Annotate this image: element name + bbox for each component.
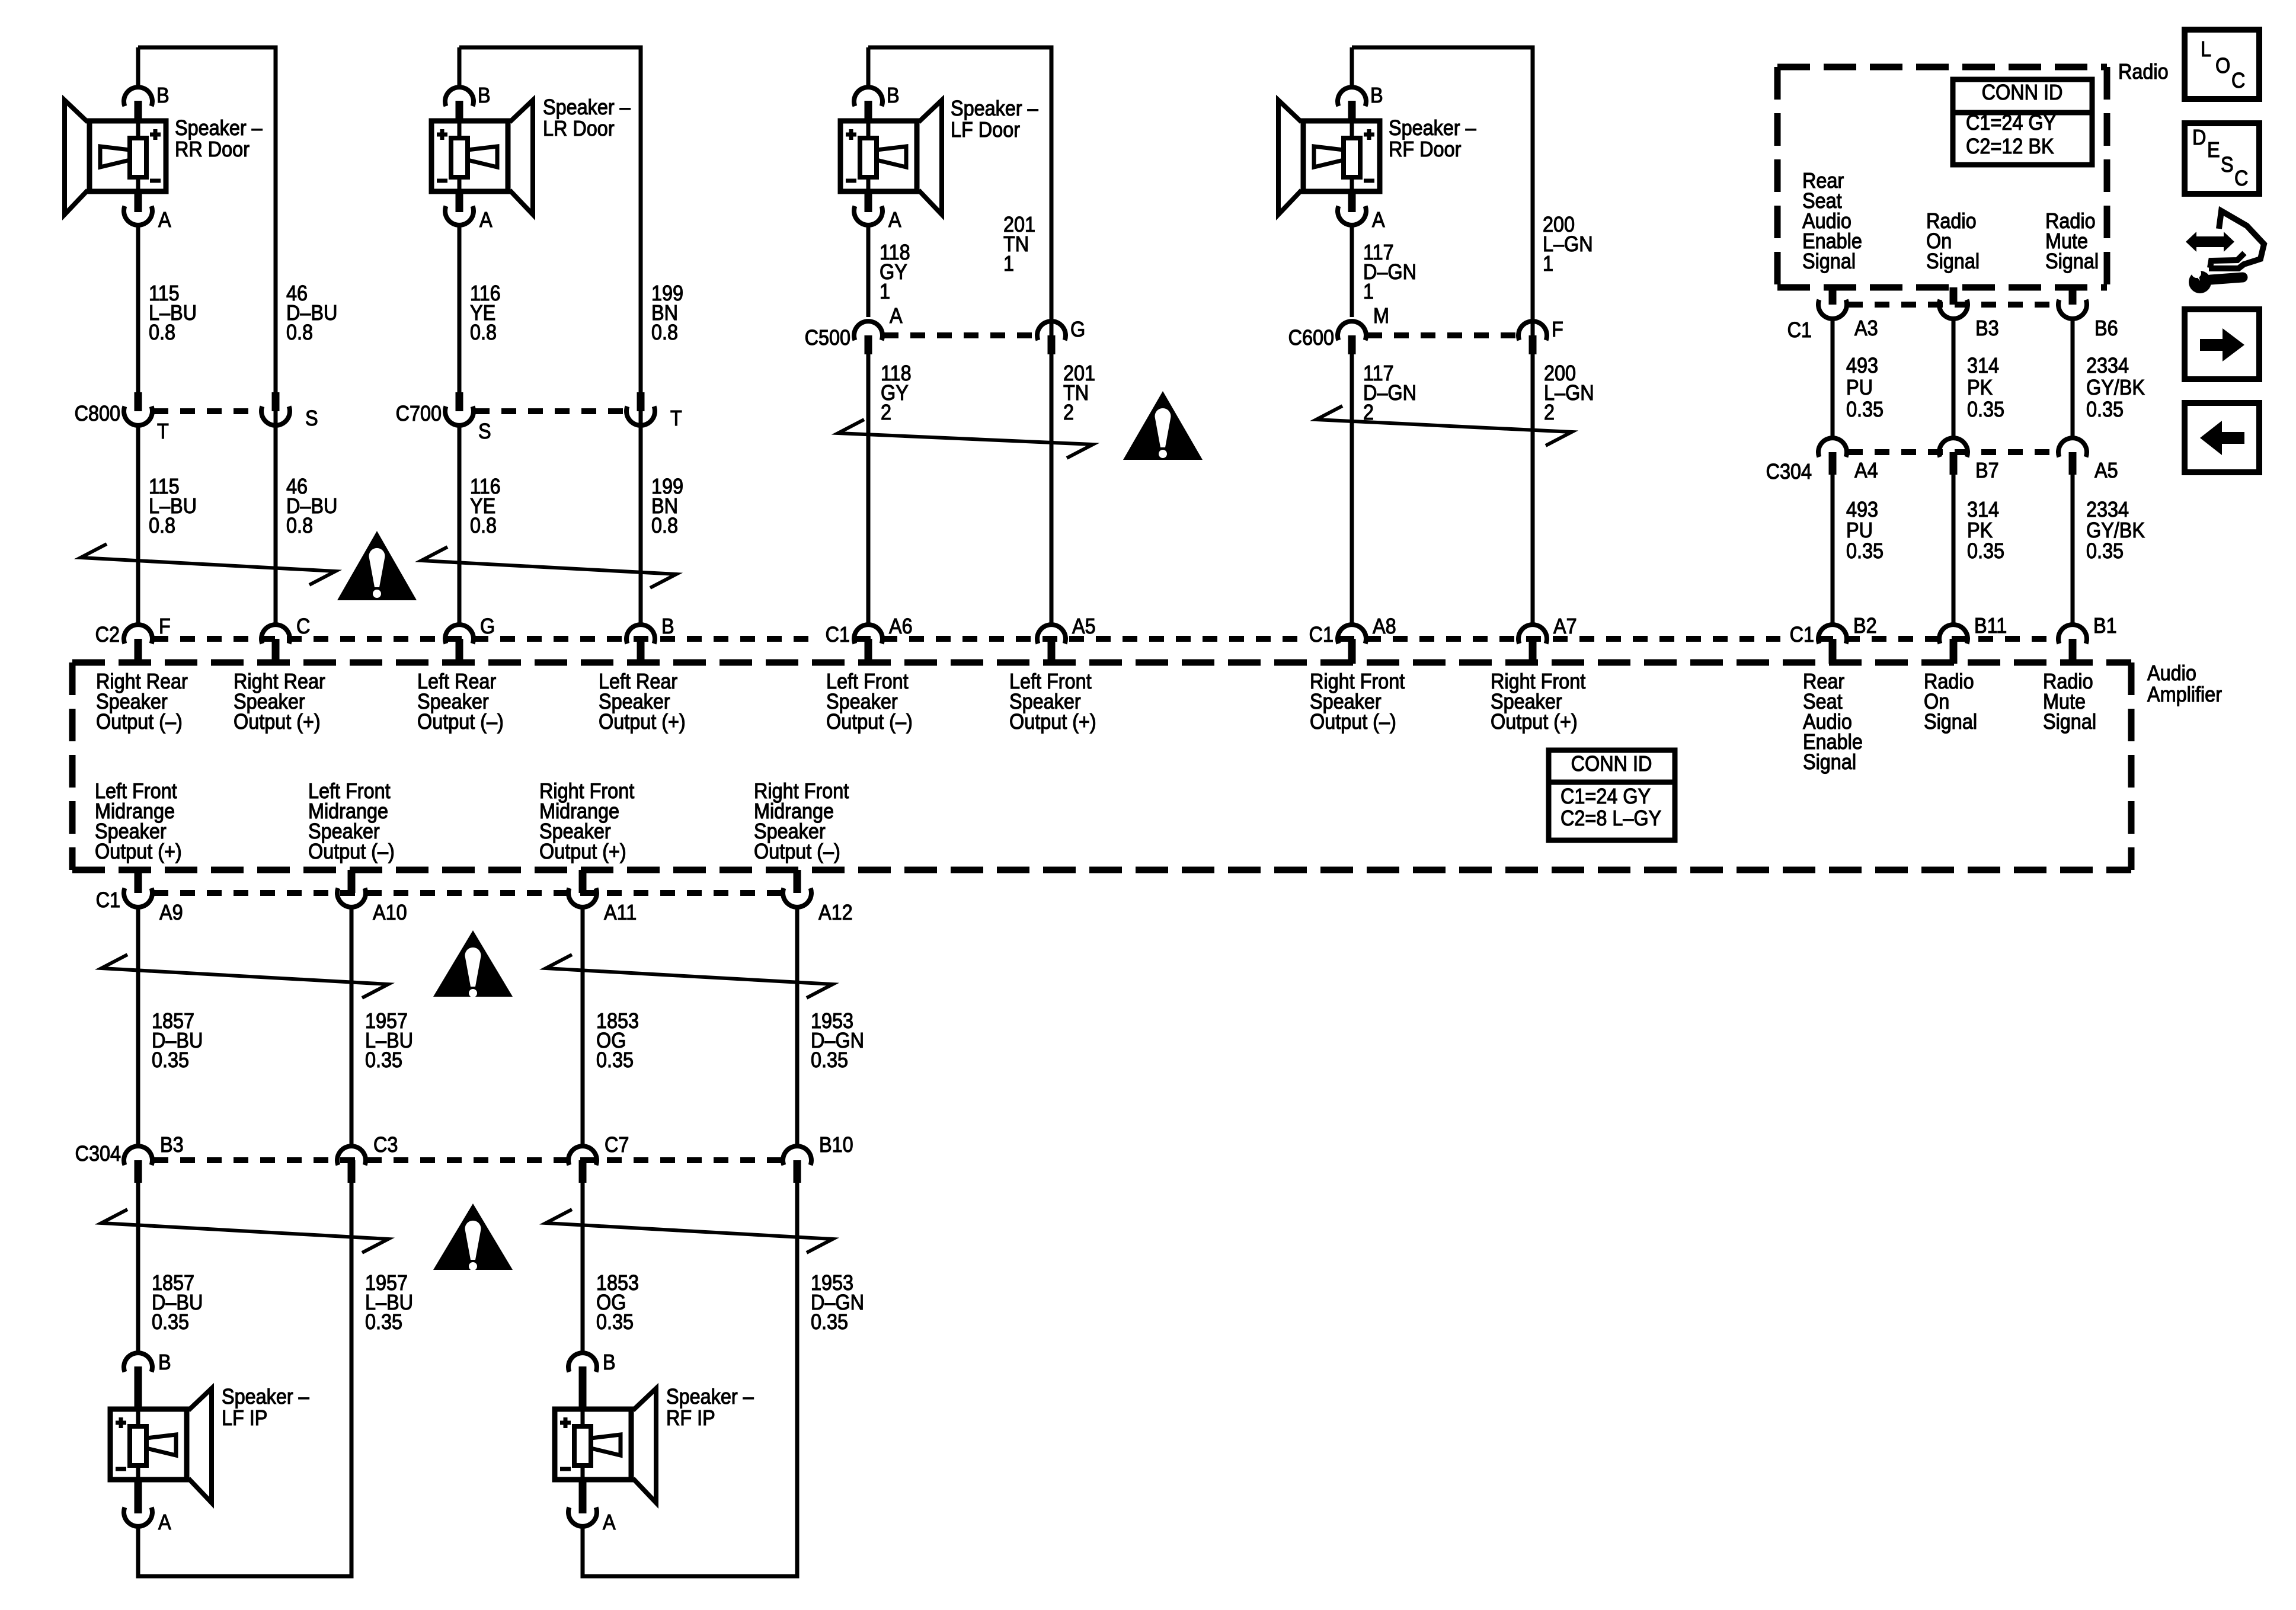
svg-text:A: A [603, 1510, 616, 1534]
svg-text:0.35: 0.35 [152, 1310, 189, 1334]
svg-text:B1: B1 [2093, 614, 2117, 638]
amp pin B [626, 625, 655, 644]
legend service icon wrench [2189, 271, 2211, 293]
svg-text:0.35: 0.35 [596, 1310, 634, 1334]
radio CONN ID table [1953, 79, 2092, 165]
amp top pin row dashed line [154, 636, 817, 642]
speaker internal wire [866, 121, 871, 191]
amp pin F [124, 625, 152, 644]
wire LF IP pin A down [136, 1526, 140, 1579]
amp pin A8 [1338, 625, 1366, 644]
svg-text:C1: C1 [96, 888, 120, 912]
speaker internal wire [458, 121, 462, 191]
svg-text:CONN ID: CONN ID [1571, 752, 1652, 776]
svg-text:1: 1 [1363, 280, 1374, 303]
speaker magnet wedge [468, 146, 497, 167]
svg-text:A: A [890, 304, 903, 328]
svg-text:0.8: 0.8 [286, 514, 313, 537]
svg-text:C304: C304 [75, 1142, 121, 1166]
wire 1853 to RF IP speaker [581, 1183, 585, 1353]
svg-text:B6: B6 [2094, 316, 2118, 340]
connector C500 left pin [854, 321, 882, 340]
svg-text:0.35: 0.35 [811, 1048, 848, 1072]
speaker horn [188, 1388, 212, 1503]
connector C700 right pin [637, 392, 645, 411]
legend DESC box [2185, 123, 2259, 194]
svg-text:0.8: 0.8 [470, 321, 497, 344]
svg-text:Output (–): Output (–) [417, 710, 504, 734]
svg-text:Speaker –: Speaker – [666, 1385, 754, 1409]
amp pin G [445, 625, 474, 644]
svg-text:B3: B3 [160, 1133, 184, 1157]
wire RF Door pin A down [1350, 225, 1354, 317]
wire 1957 upper segment [350, 907, 354, 1146]
wire RR Door below connector left [136, 425, 140, 625]
legend LOC box [2185, 30, 2259, 99]
svg-text:Output (+): Output (+) [95, 840, 182, 863]
radio pin B3 [1950, 287, 1958, 305]
wire radio 2334 lower [2071, 475, 2075, 625]
connector C600 left pin [1338, 321, 1366, 340]
svg-text:B: B [1370, 84, 1383, 107]
svg-text:0.35: 0.35 [1846, 398, 1884, 421]
svg-text:Signal: Signal [2043, 710, 2096, 734]
speaker body box [110, 1409, 187, 1480]
svg-text:Signal: Signal [1803, 750, 1856, 774]
twisted pair symbol LR Door [421, 547, 676, 588]
speaker body box [89, 121, 166, 191]
svg-text:B: B [158, 1350, 171, 1374]
speaker RF Door pin B [1338, 87, 1366, 106]
svg-text:T: T [157, 420, 169, 443]
svg-text:0.8: 0.8 [651, 514, 678, 537]
svg-text:B7: B7 [1975, 459, 1999, 482]
svg-text:B2: B2 [1853, 614, 1877, 638]
svg-text:C: C [2231, 69, 2245, 92]
svg-text:0.35: 0.35 [596, 1048, 634, 1072]
speaker voice coil [130, 138, 146, 177]
svg-text:2334: 2334 [2086, 354, 2129, 377]
speaker RF IP pin B [568, 1353, 597, 1372]
svg-text:A10: A10 [373, 901, 407, 924]
svg-text:S: S [478, 420, 491, 443]
amp pin A7 [1518, 625, 1547, 644]
svg-text:Radio: Radio [2118, 60, 2169, 84]
svg-text:T: T [670, 406, 682, 430]
svg-text:0.35: 0.35 [365, 1048, 402, 1072]
wire LF Door pin A down [866, 225, 871, 317]
C304 bottom pin C7 [568, 1146, 597, 1165]
svg-text:C2=8 L–GY: C2=8 L–GY [1560, 806, 1661, 830]
wire radio 493 upper [1831, 319, 1835, 438]
svg-text:Signal: Signal [1802, 249, 1856, 273]
legend service icon double arrow [2186, 232, 2234, 252]
svg-text:B: B [887, 84, 900, 107]
svg-text:0.8: 0.8 [470, 514, 497, 537]
svg-text:A7: A7 [1553, 614, 1577, 638]
svg-text:A12: A12 [818, 901, 853, 924]
C304 radio pin A5 [2058, 438, 2087, 457]
svg-text:0.35: 0.35 [1967, 398, 2004, 421]
connector C700 dashed line [475, 408, 625, 414]
speaker RR Door pin A [135, 191, 142, 212]
svg-text:PU: PU [1846, 518, 1873, 542]
connector C304 (radio) dashed line [1848, 449, 2057, 455]
wire LR Door left to pin B [458, 47, 462, 88]
speaker magnet wedge [146, 1435, 176, 1455]
svg-text:E: E [2207, 138, 2220, 162]
svg-text:B: B [603, 1350, 616, 1374]
speaker magnet wedge [877, 146, 906, 167]
amp bottom pin A12 [794, 870, 801, 893]
svg-text:Signal: Signal [1924, 710, 1977, 734]
amp pin B1 [2058, 625, 2087, 644]
svg-text:Output (+): Output (+) [1491, 710, 1578, 734]
svg-text:Output (+): Output (+) [539, 840, 626, 863]
speaker horn [1278, 100, 1302, 215]
connector C600 dashed line [1367, 332, 1517, 338]
svg-text:B: B [156, 84, 170, 107]
svg-text:M: M [1373, 304, 1389, 328]
wire 1853 upper segment [581, 907, 585, 1146]
twisted pair symbol RR Door [81, 544, 335, 585]
amp pin B2 [1818, 625, 1847, 644]
svg-text:2: 2 [881, 401, 891, 424]
legend back arrow box [2185, 403, 2259, 472]
amp pin A5 [1037, 625, 1066, 644]
svg-text:Speaker –: Speaker – [951, 97, 1039, 120]
svg-text:A: A [1372, 208, 1385, 232]
amp pin B11 [1939, 625, 1968, 644]
speaker LR Door pin A [456, 191, 463, 212]
svg-text:LF Door: LF Door [951, 118, 1020, 142]
svg-text:A9: A9 [159, 901, 183, 924]
twisted pair symbol lower 1 [101, 1209, 388, 1253]
speaker - terminal [116, 1467, 126, 1471]
svg-text:B10: B10 [819, 1133, 853, 1157]
amp pin C [261, 625, 290, 644]
C304 bottom pin B3 [124, 1146, 152, 1165]
wire radio 493 lower [1831, 475, 1835, 625]
speaker LF Door pin A [865, 191, 872, 212]
svg-text:A4: A4 [1854, 459, 1878, 482]
wire RF IP pin A down [581, 1526, 585, 1579]
speaker - terminal [560, 1467, 571, 1471]
wire 1953 down [795, 1183, 800, 1579]
svg-text:A: A [479, 208, 493, 232]
C304 bottom pin B10 [783, 1146, 811, 1165]
speaker RF IP pin A [579, 1479, 587, 1513]
svg-text:S: S [305, 406, 318, 430]
wire radio 2334 upper [2071, 319, 2075, 438]
twisted pair symbol RF Door [1316, 406, 1572, 446]
wire 1957 down [350, 1183, 354, 1579]
svg-text:PK: PK [1967, 518, 1993, 542]
speaker voice coil [860, 138, 877, 177]
speaker internal wire [1350, 121, 1354, 191]
speaker voice coil [1344, 138, 1360, 177]
svg-text:RR Door: RR Door [175, 137, 250, 161]
svg-text:0.35: 0.35 [1846, 539, 1884, 563]
svg-text:Speaker –: Speaker – [1389, 116, 1477, 140]
speaker + terminal [846, 129, 856, 140]
amp CONN ID table [1549, 750, 1675, 840]
speaker body box [840, 121, 917, 191]
connector C800 right pin [272, 392, 280, 411]
svg-text:C700: C700 [396, 402, 442, 425]
svg-text:2: 2 [1544, 401, 1555, 424]
svg-text:Output (–): Output (–) [96, 710, 183, 734]
wire RF Door below connector left [1350, 354, 1354, 625]
speaker voice coil [451, 138, 468, 177]
connector C800 left pin [135, 392, 142, 411]
amp pin A6 [854, 625, 882, 644]
svg-text:G: G [480, 614, 495, 638]
speaker - terminal [150, 179, 161, 183]
svg-text:D: D [2192, 126, 2206, 149]
svg-text:A8: A8 [1373, 614, 1396, 638]
svg-text:1: 1 [880, 280, 890, 303]
svg-text:RF Door: RF Door [1389, 137, 1461, 161]
legend forward arrow box [2185, 309, 2259, 379]
speaker + terminal [1364, 129, 1374, 140]
svg-text:0.8: 0.8 [149, 514, 175, 537]
wire top loop RF Door [1352, 46, 1535, 50]
svg-text:0.35: 0.35 [1967, 539, 2004, 563]
svg-text:PK: PK [1967, 376, 1993, 399]
speaker LR Door pin B [445, 87, 474, 106]
wire LR Door right drop [639, 47, 643, 625]
connector C500 right pin [1037, 321, 1066, 340]
svg-text:B: B [478, 84, 491, 107]
svg-text:0.35: 0.35 [365, 1310, 402, 1334]
twisted pair symbol lower 2 [546, 1209, 833, 1253]
amp bottom pin A10 [348, 870, 356, 893]
svg-text:GY/BK: GY/BK [2086, 518, 2145, 542]
C304 radio pin B7 [1939, 438, 1968, 457]
svg-text:Output (–): Output (–) [1310, 710, 1396, 734]
svg-text:C3: C3 [373, 1133, 398, 1157]
svg-text:Signal: Signal [1926, 249, 1980, 273]
speaker horn [919, 100, 942, 215]
warning triangle bottom 1 [433, 930, 513, 997]
svg-text:C2=12 BK: C2=12 BK [1966, 135, 2054, 158]
svg-text:PU: PU [1846, 376, 1873, 399]
wire radio 314 lower [1952, 475, 1956, 625]
svg-text:1: 1 [1543, 252, 1553, 276]
twisted pair symbol A11/A12 [546, 955, 833, 998]
svg-text:0.35: 0.35 [2086, 398, 2124, 421]
speaker LF IP pin B [124, 1353, 152, 1372]
connector C700 left pin [456, 392, 463, 411]
svg-text:LF IP: LF IP [222, 1406, 267, 1430]
wire top loop RR Door [138, 46, 278, 50]
svg-text:C500: C500 [805, 326, 850, 350]
speaker LF Door pin B [854, 87, 882, 106]
speaker - terminal [846, 179, 856, 183]
audio amplifier dashed box [72, 660, 2131, 666]
svg-text:A3: A3 [1854, 316, 1878, 340]
wire RF Door right drop [1531, 47, 1535, 625]
svg-text:A6: A6 [889, 614, 913, 638]
speaker magnet wedge [100, 146, 130, 167]
speaker - terminal [1364, 179, 1374, 183]
connector C500 dashed line [884, 332, 1036, 338]
svg-text:0.35: 0.35 [152, 1048, 189, 1072]
radio pin A3 [1829, 287, 1837, 305]
svg-text:C2: C2 [95, 623, 120, 646]
amp bottom pin A9 [135, 870, 142, 893]
wire 1857 to LF IP speaker [136, 1183, 140, 1353]
speaker + terminal [116, 1417, 126, 1428]
svg-text:Speaker –: Speaker – [222, 1385, 310, 1409]
warning triangle near C500 [1123, 391, 1203, 460]
svg-text:C: C [2234, 167, 2248, 190]
svg-text:C: C [296, 614, 310, 638]
svg-text:Signal: Signal [2045, 249, 2099, 273]
svg-text:Output (–): Output (–) [308, 840, 395, 863]
svg-text:C1: C1 [1790, 623, 1814, 646]
wire LF Door below connector right [1050, 354, 1054, 625]
svg-text:S: S [2221, 153, 2234, 177]
svg-text:RF IP: RF IP [666, 1406, 715, 1430]
svg-text:L: L [2201, 37, 2211, 61]
svg-text:C1=24 GY: C1=24 GY [1560, 785, 1651, 808]
connector C800 dashed line [154, 408, 260, 414]
speaker + terminal [437, 129, 447, 140]
svg-text:C800: C800 [75, 402, 120, 425]
svg-text:Audio: Audio [2147, 661, 2196, 685]
warning triangle near C700 [337, 531, 417, 600]
speaker + terminal [560, 1417, 571, 1428]
wire LF Door left to pin B [866, 47, 871, 88]
svg-text:0.35: 0.35 [2086, 539, 2124, 563]
speaker horn [510, 100, 533, 215]
svg-text:O: O [2215, 54, 2230, 78]
speaker voice coil [574, 1426, 591, 1465]
radio pin row dashed line [1848, 302, 2057, 308]
svg-text:GY/BK: GY/BK [2086, 376, 2145, 399]
speaker LF IP pin A [135, 1479, 142, 1513]
speaker magnet wedge [1314, 146, 1344, 167]
legend service icon harness outline [2209, 211, 2264, 268]
speaker magnet wedge [591, 1435, 621, 1455]
twisted pair symbol A9/A10 [101, 955, 388, 998]
speaker + terminal [150, 129, 161, 140]
svg-text:CONN ID: CONN ID [1982, 81, 2063, 104]
speaker internal wire [136, 121, 140, 191]
speaker horn [65, 100, 88, 215]
wire LR Door below connector left [458, 425, 462, 625]
amp bottom pin A11 [579, 870, 587, 893]
svg-text:C1: C1 [1787, 318, 1812, 342]
wire RF Door below connector right [1531, 354, 1535, 625]
svg-text:Speaker –: Speaker – [175, 116, 263, 140]
wire 1857 upper segment [136, 907, 140, 1146]
svg-text:A5: A5 [2094, 459, 2118, 482]
svg-text:Output (+): Output (+) [599, 710, 686, 734]
svg-text:314: 314 [1967, 354, 1999, 377]
svg-text:C1: C1 [1309, 623, 1334, 646]
svg-text:C1: C1 [826, 623, 850, 646]
svg-text:A5: A5 [1072, 614, 1096, 638]
svg-text:A11: A11 [604, 901, 637, 924]
radio dashed box [1777, 64, 2107, 71]
wire LF Door below connector left [866, 354, 871, 625]
connector C600 right pin [1518, 321, 1547, 340]
svg-text:493: 493 [1846, 498, 1878, 521]
radio pin B6 [2069, 287, 2077, 305]
wire RF Door left to pin B [1350, 47, 1354, 88]
wire radio 314 upper [1952, 319, 1956, 438]
svg-text:A: A [888, 208, 901, 232]
speaker body box [431, 121, 508, 191]
speaker internal wire [136, 1409, 140, 1480]
svg-text:0.8: 0.8 [149, 321, 175, 344]
svg-text:493: 493 [1846, 354, 1878, 377]
speaker body box [1303, 121, 1380, 191]
svg-text:C600: C600 [1288, 326, 1334, 350]
svg-text:0.8: 0.8 [286, 321, 313, 344]
wire top loop LR Door [459, 46, 643, 50]
speaker voice coil [130, 1426, 146, 1465]
svg-text:C7: C7 [605, 1133, 629, 1157]
svg-text:B: B [661, 614, 674, 638]
svg-text:0.35: 0.35 [811, 1310, 848, 1334]
svg-text:G: G [1070, 318, 1085, 341]
svg-text:2334: 2334 [2086, 498, 2129, 521]
svg-text:A: A [158, 208, 171, 232]
wire RR Door left to pin B [136, 47, 140, 88]
svg-text:0.8: 0.8 [651, 321, 678, 344]
svg-text:Amplifier: Amplifier [2147, 683, 2222, 706]
amp bottom pin row dashed line [154, 890, 782, 896]
svg-text:2: 2 [1063, 401, 1074, 424]
speaker internal wire [581, 1409, 585, 1480]
speaker horn [633, 1388, 656, 1503]
svg-text:Speaker –: Speaker – [543, 95, 631, 119]
wire LR Door pin A down [458, 225, 462, 393]
warning triangle bottom 2 [433, 1204, 513, 1270]
svg-text:C304: C304 [1766, 460, 1812, 484]
wire RR Door right drop [274, 47, 278, 625]
connector C304 (bottom) dashed line [154, 1157, 782, 1163]
svg-text:C1=24 GY: C1=24 GY [1966, 111, 2056, 135]
svg-text:B3: B3 [1975, 316, 1999, 340]
svg-text:A: A [158, 1510, 171, 1534]
speaker RR Door pin B [124, 87, 152, 106]
wire 1953 upper segment [795, 907, 800, 1146]
svg-text:F: F [1552, 318, 1563, 341]
speaker - terminal [437, 179, 447, 183]
svg-text:Output (–): Output (–) [754, 840, 840, 863]
wire top loop LF Door [868, 46, 1054, 50]
wire RR Door pin A down [136, 225, 140, 393]
speaker RF Door pin A [1348, 191, 1356, 212]
svg-text:Output (+): Output (+) [234, 710, 321, 734]
wire LF IP bottom loop [136, 1574, 354, 1579]
svg-text:B11: B11 [1974, 614, 2007, 638]
wire LF Door right drop [1050, 47, 1054, 625]
svg-text:1: 1 [1003, 252, 1014, 276]
svg-text:314: 314 [1967, 498, 1999, 521]
wire RF IP bottom loop [581, 1574, 800, 1579]
svg-text:F: F [159, 614, 171, 638]
speaker body box [555, 1409, 631, 1480]
svg-text:Output (+): Output (+) [1009, 710, 1096, 734]
C304 bottom pin C3 [337, 1146, 366, 1165]
C304 radio pin A4 [1818, 438, 1847, 457]
